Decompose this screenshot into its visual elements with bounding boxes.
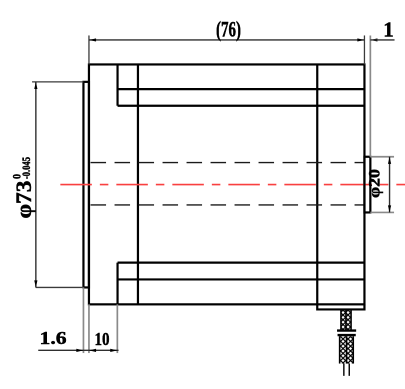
- red centerline: [60, 184, 405, 186]
- cable upper sleeve: [341, 310, 351, 329]
- svg-text:φ73: φ73: [11, 181, 36, 219]
- rear shaft boss phi20: [364, 157, 370, 213]
- phi20 extension line top: [370, 156, 394, 158]
- bottom terminal ledge: [317, 304, 364, 309]
- lead wire right: [348, 364, 350, 376]
- hidden bore dashed line top: [91, 162, 365, 164]
- phi73 dimension line: [35, 82, 37, 288]
- arrow right of (76): [357, 38, 364, 41]
- arrow left of (76): [89, 38, 96, 41]
- cable clamp band lower: [338, 334, 356, 336]
- extension line below end-bell (10 dim): [116, 304, 118, 353]
- hidden bore dashed line bottom: [91, 204, 365, 206]
- phi73 extension line bottom: [36, 286, 84, 288]
- dimension line (76): [89, 39, 364, 41]
- phi73 arrow bottom: [34, 280, 37, 287]
- extension line right of (76): [363, 35, 365, 64]
- phi73 extension line top: [32, 81, 83, 83]
- phi20 arrow top: [388, 157, 391, 164]
- svg-text:1.6: 1.6: [40, 328, 67, 348]
- lead wire left: [343, 364, 345, 376]
- svg-text:-0.045: -0.045: [19, 157, 33, 179]
- rear housing boundary line: [316, 64, 318, 304]
- extension line for 1 dim (rear cover): [369, 35, 371, 156]
- front pilot boss (phi73 flange): [83, 82, 89, 288]
- phi73 arrow top: [34, 82, 37, 89]
- arrow for 1 dim: [370, 38, 377, 41]
- svg-text:1: 1: [383, 18, 394, 42]
- arrow 1.6 left: [76, 349, 83, 352]
- motor body outline: [89, 64, 364, 304]
- phi20 dimension line: [389, 157, 391, 213]
- bottom dimension line: [38, 349, 118, 351]
- svg-text:10: 10: [95, 329, 110, 349]
- upper rib line 1: [118, 88, 365, 90]
- extension line below boss left (1.6 dim): [82, 287, 84, 353]
- upper rib line 2: [118, 105, 365, 107]
- svg-text:(76): (76): [216, 17, 241, 42]
- phi20 arrow bottom: [388, 205, 391, 212]
- front housing boundary line: [137, 64, 139, 304]
- lower rib line 2: [118, 278, 365, 280]
- arrow 10 left: [89, 349, 96, 352]
- extension line below front face: [88, 304, 90, 353]
- lower rib line 1: [118, 262, 365, 264]
- extension line left of (76): [88, 35, 90, 64]
- phi20 extension line bottom: [370, 211, 394, 213]
- arrow 10 right: [110, 349, 117, 352]
- tail line of 1 dim: [370, 39, 394, 41]
- front end-bell vertical upper segment: [116, 64, 118, 105]
- svg-text:φ20: φ20: [366, 169, 383, 198]
- front end-bell vertical lower segment: [116, 263, 118, 305]
- cable clamp band upper: [337, 329, 356, 331]
- cable lower sleeve: [340, 336, 354, 363]
